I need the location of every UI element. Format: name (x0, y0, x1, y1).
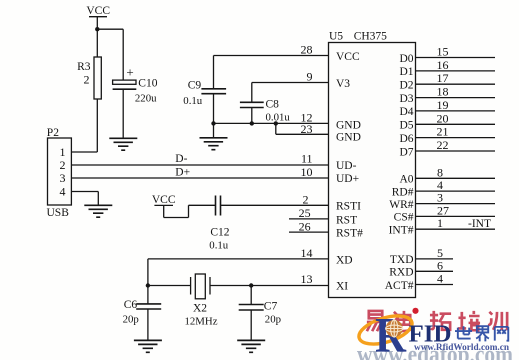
svg-text:21: 21 (437, 125, 449, 139)
ground under P2 pin4 (84, 205, 112, 217)
svg-text:TXD: TXD (390, 254, 414, 266)
svg-text:P2: P2 (47, 127, 59, 139)
svg-text:15: 15 (437, 45, 449, 59)
svg-text:9: 9 (307, 70, 313, 84)
svg-text:0.1u: 0.1u (183, 95, 202, 107)
power symbol VCC (top left) (89, 17, 107, 57)
svg-text:RD#: RD# (392, 186, 414, 198)
wire U5 pin5 TXD (416, 258, 454, 260)
svg-text:C12: C12 (210, 227, 229, 239)
capacitor C10 (electrolytic) (113, 80, 137, 89)
wire C10 to ground (122, 89, 124, 138)
svg-text:11: 11 (301, 152, 313, 166)
wire U5 pin18 D3 (416, 97, 496, 99)
svg-text:RST#: RST# (336, 228, 363, 240)
svg-text:XD: XD (336, 254, 353, 266)
svg-text:C8: C8 (266, 99, 280, 111)
svg-text:C9: C9 (188, 80, 202, 92)
svg-text:A0: A0 (399, 174, 413, 186)
watermark red char 2 (di) (393, 311, 413, 331)
svg-text:D3: D3 (399, 93, 413, 105)
svg-text:UD+: UD+ (336, 173, 359, 185)
svg-text:RXD: RXD (389, 267, 413, 279)
svg-text:GND: GND (336, 132, 361, 144)
svg-text:12MHz: 12MHz (185, 316, 218, 328)
ground under rail (200, 138, 228, 150)
wire U5 pin22 D7 (416, 150, 496, 152)
wire U5 pin20 D5 (416, 123, 496, 125)
node junction XD/C6 (146, 283, 150, 287)
svg-text:GND: GND (336, 119, 361, 131)
wire U5 pin16 D1 (416, 70, 496, 72)
wire U5 pin27 CS# (416, 215, 496, 217)
svg-text:20p: 20p (265, 314, 281, 326)
svg-text:2: 2 (303, 192, 309, 206)
watermark red char 5 (xun) (488, 312, 507, 330)
svg-text:VCC: VCC (86, 5, 110, 17)
svg-text:V3: V3 (336, 78, 350, 90)
wire ground rail to U5 pin12 (214, 122, 329, 124)
wire U5 pin19 D4 (416, 110, 496, 112)
svg-text:RSTI: RSTI (336, 201, 361, 213)
node junction pin23 branch (274, 121, 278, 125)
svg-text:www.RfidWorld.com.cn: www.RfidWorld.com.cn (414, 343, 510, 353)
svg-text:D2: D2 (399, 80, 413, 92)
wire U5 pin9 V3 to C8 (252, 83, 329, 103)
connector P2 body (48, 138, 72, 205)
wire P2 pin4 to ground (71, 192, 98, 206)
svg-text:UD-: UD- (336, 160, 357, 172)
watermark blue char 1 (shi) (455, 326, 472, 338)
svg-text:XI: XI (336, 280, 348, 292)
wire VCC node to C10 (97, 29, 123, 80)
wire C9 to ground rail (213, 94, 215, 124)
crystal X2 (191, 274, 210, 299)
svg-text:D6: D6 (399, 133, 413, 145)
svg-text:RST: RST (336, 214, 357, 226)
svg-text:18: 18 (437, 85, 449, 99)
svg-text:WR#: WR# (389, 199, 414, 211)
wire ground stub (213, 123, 215, 137)
watermark red char 1 (yi) (367, 311, 384, 331)
svg-text:C6: C6 (124, 299, 138, 311)
svg-text:D1: D1 (399, 66, 413, 78)
wire crystal row to U5 pin13 XI (148, 285, 329, 287)
svg-text:4: 4 (437, 272, 443, 286)
resistor R3 (94, 57, 101, 99)
ground under C10 (109, 138, 137, 150)
wire C8 to ground rail (251, 108, 253, 124)
node junction C8/ground rail (250, 121, 254, 125)
svg-text:17: 17 (437, 71, 449, 85)
watermark red char 3 (tuo) (430, 311, 451, 330)
wire U5 pin6 RXD (416, 270, 454, 272)
svg-text:R3: R3 (77, 61, 91, 73)
svg-text:1: 1 (437, 216, 443, 230)
wire C12 to U5 pin2 RSTI (221, 204, 329, 206)
svg-text:D7: D7 (399, 146, 413, 158)
power symbol VCC (near C12) (154, 205, 173, 217)
svg-text:19: 19 (437, 98, 449, 112)
svg-text:3: 3 (60, 171, 66, 185)
svg-text:D5: D5 (399, 120, 413, 132)
svg-text:+: + (126, 65, 133, 80)
wire U5 pin14 XD to crystal (148, 259, 329, 286)
capacitor C8 (240, 102, 264, 107)
svg-text:22: 22 (437, 138, 449, 152)
wire VCC jog to C12 (164, 205, 216, 217)
watermark blue char 2 (jie) (476, 326, 489, 341)
capacitor C12 (216, 196, 221, 216)
wire U5 pin1 INT# (416, 228, 496, 230)
watermark logo red dot (412, 308, 418, 314)
wire U5 pin21 D6 (416, 137, 496, 139)
wire P2 pin2 D- net to U5 UD- (71, 164, 328, 166)
svg-text:0.1u: 0.1u (209, 240, 228, 252)
svg-text:1: 1 (60, 145, 66, 159)
node junction at VCC rail (95, 27, 99, 31)
svg-text:2: 2 (60, 158, 66, 172)
watermark logo orange swoosh ellipse (356, 310, 416, 349)
svg-text:220u: 220u (135, 93, 157, 105)
wire R3 bottom to P2 pin1 (71, 99, 97, 152)
watermark logo globe (386, 320, 403, 337)
watermark blue char 3 (wang) (495, 327, 508, 341)
svg-text:C7: C7 (264, 301, 278, 313)
wire U5 pin8 A0 (416, 177, 496, 179)
wire U5 pin15 D0 (416, 57, 496, 59)
wire U5 pin23 branch (276, 123, 329, 134)
svg-text:14: 14 (301, 246, 313, 260)
svg-text:VCC: VCC (336, 51, 360, 63)
svg-text:CS#: CS# (394, 212, 414, 224)
svg-text:D+: D+ (175, 166, 190, 178)
svg-text:USB: USB (47, 207, 70, 219)
watermark red char 4 (pei) (458, 311, 480, 330)
svg-text:D-: D- (175, 153, 187, 165)
svg-text:0.01u: 0.01u (266, 112, 291, 124)
IC U5 CH375 body (329, 43, 416, 298)
svg-text:U5: U5 (329, 31, 343, 43)
capacitor C6 (136, 286, 161, 341)
svg-text:4: 4 (60, 185, 66, 199)
node junction XI/C7 (249, 283, 253, 287)
svg-text:D4: D4 (399, 106, 413, 118)
svg-text:6: 6 (437, 258, 443, 272)
capacitor C9 (201, 89, 226, 94)
svg-text:13: 13 (301, 272, 313, 286)
svg-text:2: 2 (84, 73, 90, 87)
svg-text:INT#: INT# (389, 225, 414, 237)
wire U5 pin25 stub (289, 218, 329, 220)
svg-text:16: 16 (437, 58, 449, 72)
ground under C7 (237, 340, 265, 352)
wire U5 pin17 D2 (416, 83, 496, 85)
svg-text:20: 20 (437, 111, 449, 125)
svg-text:23: 23 (301, 122, 313, 136)
wire U5 pin3 WR# (416, 203, 496, 205)
svg-text:D0: D0 (399, 53, 413, 65)
wire U5 pin26 stub (289, 231, 329, 233)
svg-text:VCC: VCC (152, 194, 176, 206)
capacitor C7 (239, 286, 264, 341)
wire U5 pin4 ACT# (416, 284, 454, 286)
svg-text:ACT#: ACT# (385, 280, 414, 292)
ground under C6 (134, 340, 162, 352)
svg-text:-INT: -INT (468, 218, 491, 230)
svg-text:10: 10 (301, 165, 313, 179)
svg-text:25: 25 (299, 206, 311, 220)
svg-text:CH375: CH375 (354, 31, 387, 43)
svg-text:28: 28 (301, 43, 313, 57)
node junction C9/ground (211, 121, 215, 125)
wire P2 pin3 D+ net to U5 UD+ (71, 177, 328, 179)
wire U5 pin4 RD# (416, 190, 496, 192)
svg-text:X2: X2 (193, 303, 207, 315)
wire U5 pin28 VCC rail to C9 (214, 56, 329, 89)
svg-text:C10: C10 (138, 78, 157, 90)
svg-text:20p: 20p (123, 314, 139, 326)
svg-text:26: 26 (299, 219, 311, 233)
